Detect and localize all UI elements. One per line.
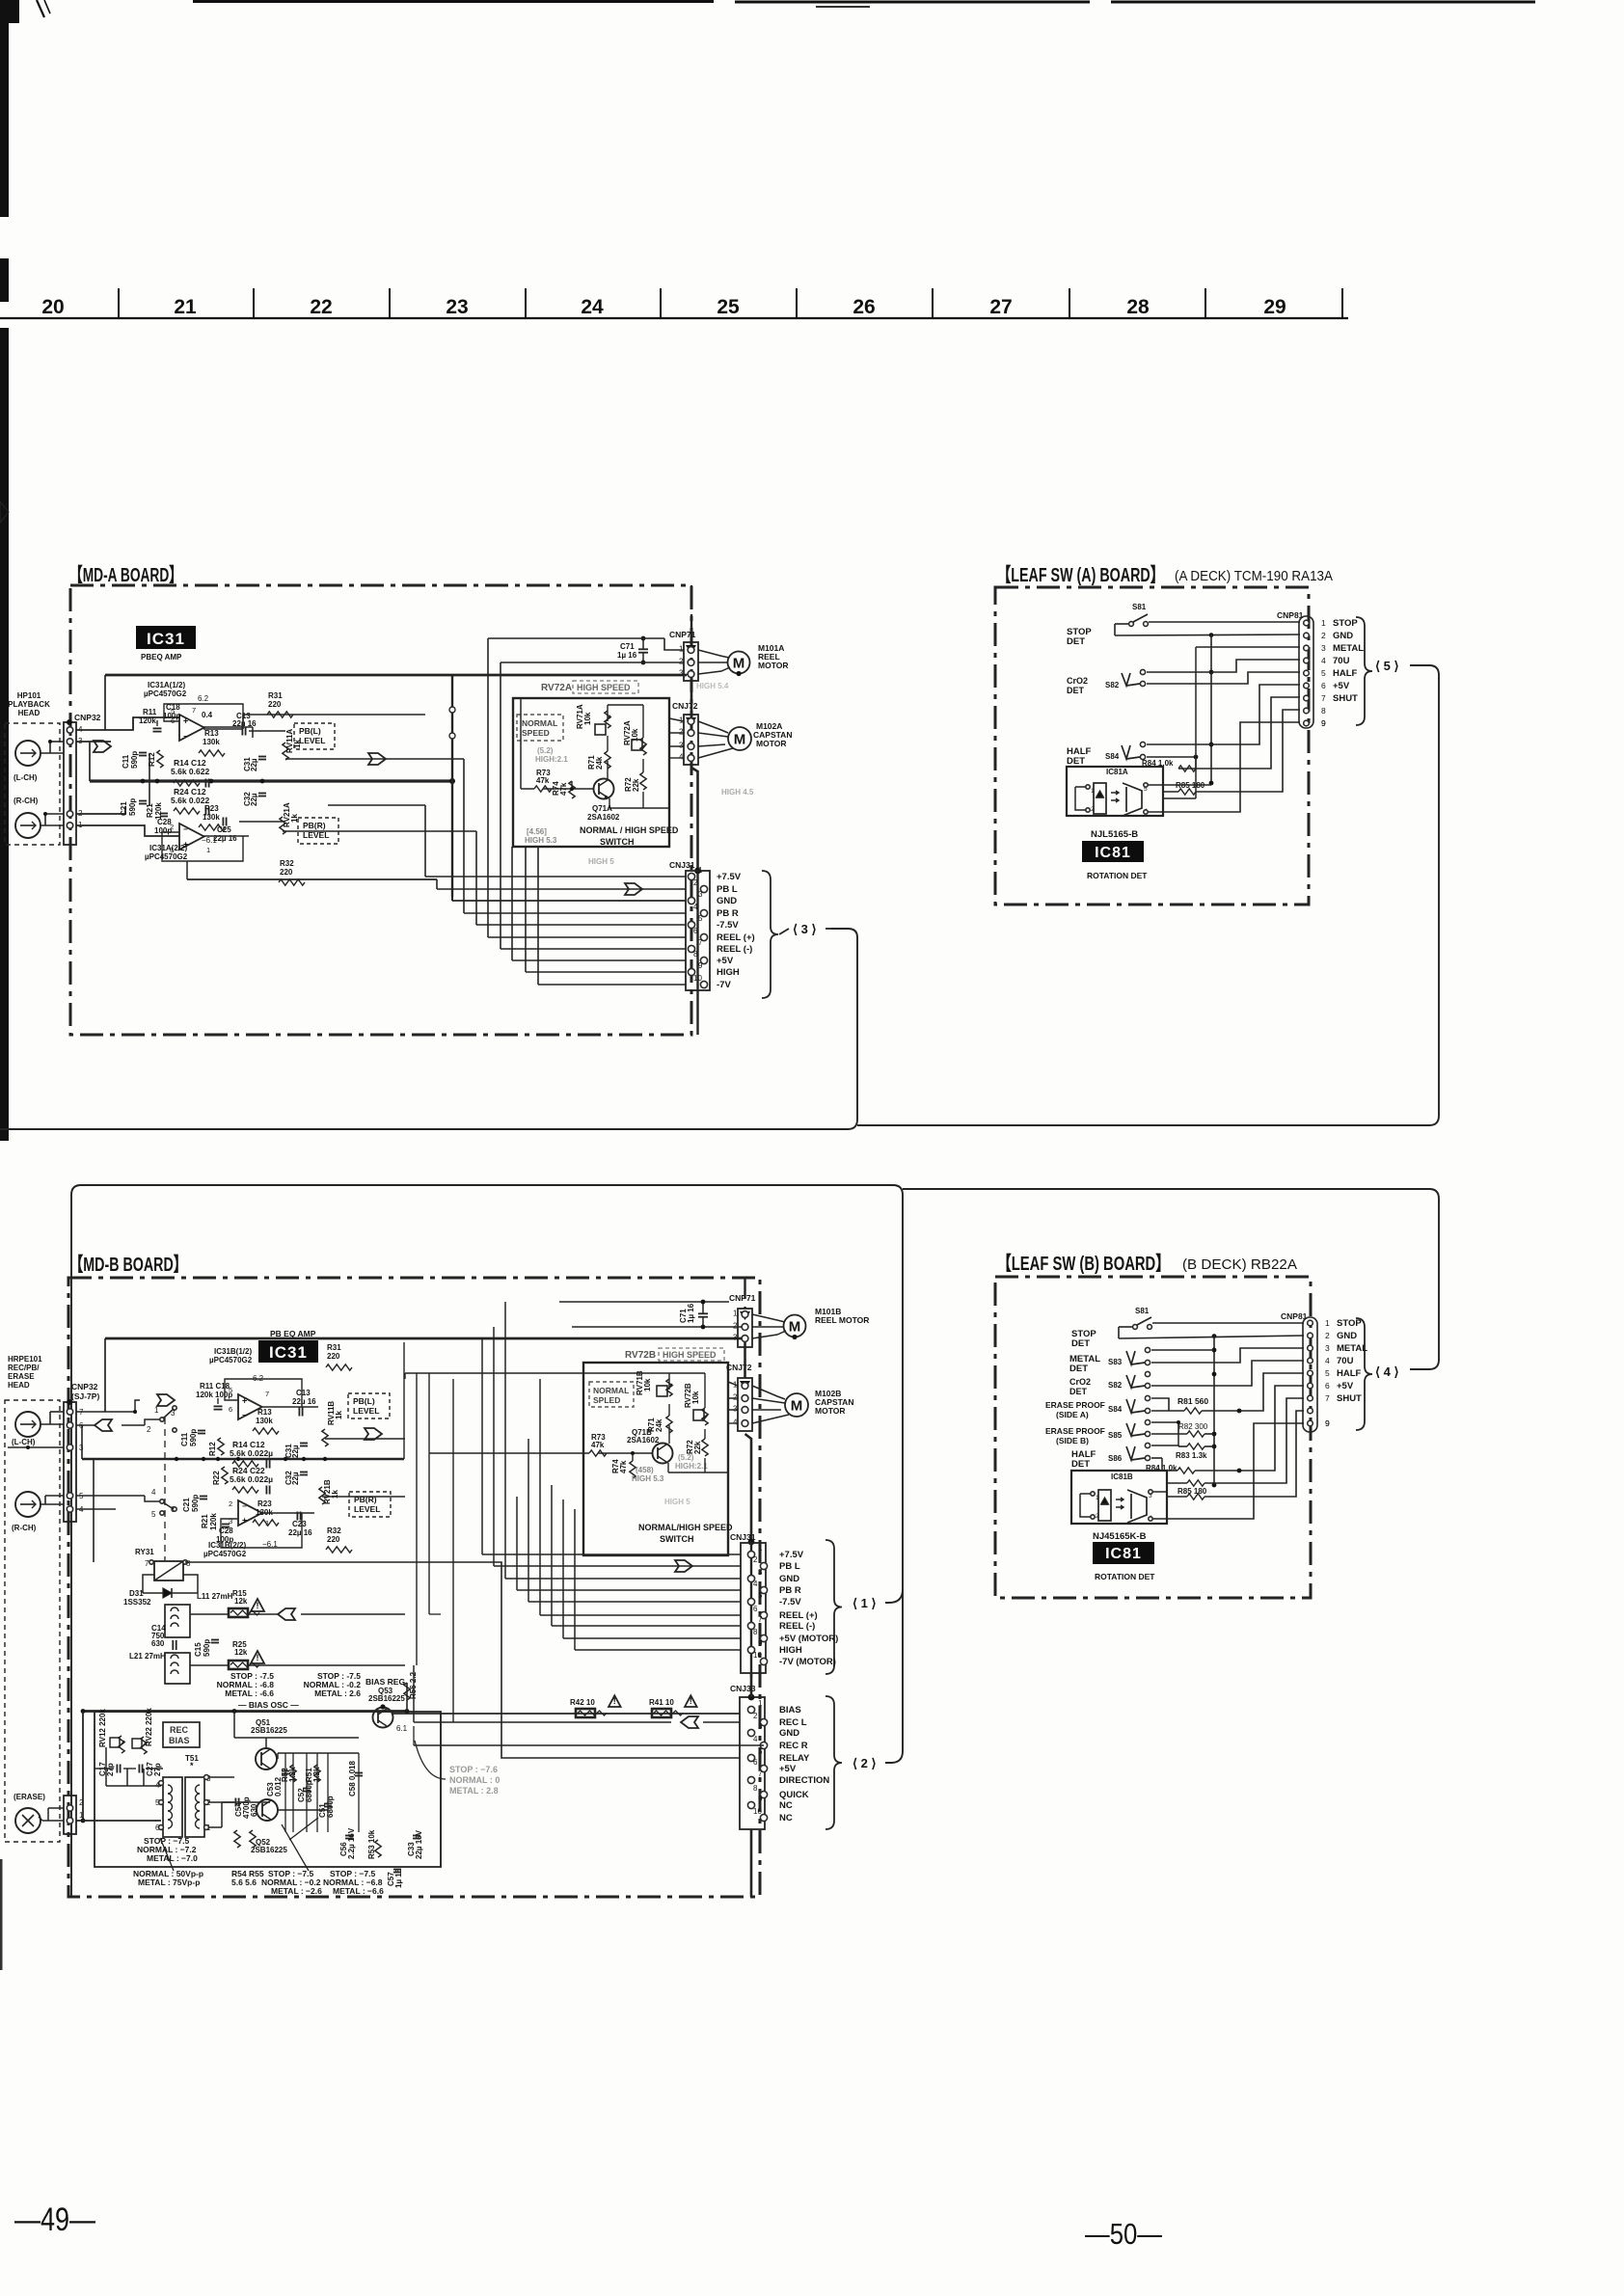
svg-text:MOTOR: MOTOR xyxy=(815,1406,845,1416)
op-amp IC31B(2/2) xyxy=(238,1500,262,1526)
svg-text:—50—: —50— xyxy=(1085,2217,1162,2251)
svg-text:⟨ 2 ⟩: ⟨ 2 ⟩ xyxy=(853,1756,877,1770)
svg-text:120k: 120k xyxy=(139,716,156,725)
svg-text:22: 22 xyxy=(310,296,332,318)
svg-text:IC81: IC81 xyxy=(1095,845,1131,861)
svg-text:29: 29 xyxy=(1263,296,1286,318)
svg-text:9: 9 xyxy=(758,1639,763,1648)
svg-text:HIGH: HIGH xyxy=(779,1645,802,1656)
svg-text:22µ 16V: 22µ 16V xyxy=(415,1829,423,1859)
svg-text:(L-CH): (L-CH) xyxy=(14,773,38,782)
svg-text:ROTATION DET: ROTATION DET xyxy=(1087,871,1148,880)
svg-text:-7V (MOTOR): -7V (MOTOR) xyxy=(779,1657,836,1667)
svg-text:(SIDE A): (SIDE A) xyxy=(1056,1410,1089,1419)
svg-text:S81: S81 xyxy=(1132,603,1147,611)
svg-text:PB EQ AMP: PB EQ AMP xyxy=(270,1329,316,1338)
stop det wires (A) xyxy=(1149,621,1300,623)
capstan motor M102A xyxy=(728,727,751,750)
svg-text:6: 6 xyxy=(753,1605,758,1613)
svg-text:21: 21 xyxy=(174,296,197,318)
wire Q53 to CNJ33 BIAS xyxy=(392,1713,740,1715)
reel motor M101B xyxy=(784,1315,806,1337)
svg-text:2: 2 xyxy=(1321,631,1326,640)
svg-text:3: 3 xyxy=(1325,1343,1330,1353)
svg-text:RV22 220k: RV22 220k xyxy=(145,1708,153,1746)
svg-text:DET: DET xyxy=(1069,1364,1088,1374)
svg-text:22µ: 22µ xyxy=(291,1445,300,1458)
svg-text:22µ 16: 22µ 16 xyxy=(288,1528,312,1537)
IC81A wires xyxy=(1075,786,1086,788)
svg-text:NORMAL/HIGH SPEED: NORMAL/HIGH SPEED xyxy=(638,1523,733,1532)
svg-text:DET: DET xyxy=(1067,636,1085,647)
svg-text:+5V (MOTOR): +5V (MOTOR) xyxy=(779,1634,838,1644)
signal chevron (MD-B mid) xyxy=(365,1428,382,1440)
svg-text:PB L: PB L xyxy=(779,1561,800,1572)
left chevron on REC L line xyxy=(681,1716,698,1728)
IC81B wires xyxy=(1080,1493,1091,1495)
svg-text:4: 4 xyxy=(1325,1356,1330,1365)
svg-text:HIGH 5: HIGH 5 xyxy=(664,1498,690,1506)
MD-B top bus wires xyxy=(105,1337,744,1340)
svg-text:HIGH 4.5: HIGH 4.5 xyxy=(721,788,754,797)
svg-text:22µ: 22µ xyxy=(250,758,258,771)
svg-text:5: 5 xyxy=(758,1747,763,1756)
wires head to CNP32 xyxy=(41,752,64,754)
svg-text:C13: C13 xyxy=(296,1389,311,1397)
svg-text:220: 220 xyxy=(327,1535,340,1544)
svg-text:CNJ72: CNJ72 xyxy=(726,1363,752,1372)
svg-text:LEVEL: LEVEL xyxy=(353,1406,379,1416)
svg-text:+: + xyxy=(242,1516,247,1526)
svg-text:DET: DET xyxy=(1067,686,1085,695)
svg-text:HIGH SPEED: HIGH SPEED xyxy=(663,1350,717,1360)
svg-text:10: 10 xyxy=(693,974,702,983)
IC31 label block (MD-A) xyxy=(136,626,196,649)
svg-text:R32: R32 xyxy=(327,1526,341,1535)
svg-text:ROTATION DET: ROTATION DET xyxy=(1095,1572,1155,1581)
signal arrow from CNP32 pin3 xyxy=(94,741,111,752)
svg-text:METAL : 75Vp-p: METAL : 75Vp-p xyxy=(138,1877,200,1887)
svg-text:8: 8 xyxy=(693,950,698,959)
svg-text:2SB16225: 2SB16225 xyxy=(251,1726,287,1735)
svg-text:590p: 590p xyxy=(130,751,139,769)
svg-text:+: + xyxy=(183,716,188,726)
svg-text:2: 2 xyxy=(679,658,684,666)
wire branch to brace 1 xyxy=(885,1589,903,1603)
svg-text:+7.5V: +7.5V xyxy=(717,872,742,882)
svg-text:2: 2 xyxy=(753,1555,758,1564)
svg-text:4: 4 xyxy=(733,1418,738,1427)
svg-text:130k: 130k xyxy=(203,738,220,746)
wires opamp area (MD-A) xyxy=(132,717,134,730)
erase head circle with X xyxy=(15,1808,41,1833)
switch block internal wires (B) xyxy=(583,1452,589,1454)
svg-text:5: 5 xyxy=(1325,1368,1330,1378)
svg-text:−: − xyxy=(183,732,188,741)
svg-text:IC81A: IC81A xyxy=(1106,768,1128,776)
svg-text:120k: 120k xyxy=(209,1513,218,1530)
svg-text:NJ45165K-B: NJ45165K-B xyxy=(1093,1531,1147,1542)
svg-text:-7.5V: -7.5V xyxy=(717,920,739,931)
optocoupler IC81A box xyxy=(1067,767,1163,816)
svg-text:2: 2 xyxy=(1325,1331,1330,1340)
svg-text:5: 5 xyxy=(758,1591,763,1600)
svg-text:µPC4570G2: µPC4570G2 xyxy=(203,1550,247,1558)
svg-text:4: 4 xyxy=(679,753,684,762)
svg-text:8: 8 xyxy=(1321,706,1326,716)
wires switch box to CNJ72 (B) xyxy=(728,1382,738,1386)
svg-text:22µ 16: 22µ 16 xyxy=(292,1397,316,1406)
svg-text:REEL (+): REEL (+) xyxy=(717,932,755,943)
svg-text:−: − xyxy=(242,1411,247,1419)
svg-text:LEVEL: LEVEL xyxy=(354,1504,380,1514)
svg-text:RELAY: RELAY xyxy=(779,1753,810,1764)
switch block box (MD-B) xyxy=(583,1363,728,1555)
svg-text:7: 7 xyxy=(698,938,703,947)
svg-text:1µ 16: 1µ 16 xyxy=(617,651,637,660)
svg-text:1k: 1k xyxy=(335,1411,343,1419)
callout arrows xyxy=(160,1838,174,1871)
svg-text:NORMAL : 0: NORMAL : 0 xyxy=(449,1775,500,1785)
svg-text:C21: C21 xyxy=(182,1498,191,1512)
svg-text:12k: 12k xyxy=(234,1648,248,1657)
svg-text:HIGH:2.1: HIGH:2.1 xyxy=(675,1462,708,1471)
svg-text:GND: GND xyxy=(717,896,737,906)
svg-text:C15: C15 xyxy=(194,1642,203,1657)
svg-text:6: 6 xyxy=(693,927,698,935)
vertical bus (B) xyxy=(1213,1336,1215,1485)
chevron on PB L line xyxy=(625,883,642,895)
svg-text:2: 2 xyxy=(1091,806,1095,813)
wires switch box to CNJ72 xyxy=(669,718,684,721)
transistor Q71A xyxy=(594,779,614,799)
svg-text:IC31B(1/2): IC31B(1/2) xyxy=(214,1347,252,1356)
svg-text:−: − xyxy=(242,1502,247,1511)
svg-text:BIAS: BIAS xyxy=(169,1736,190,1745)
svg-text:DIRECTION: DIRECTION xyxy=(779,1775,829,1786)
svg-text:µPC4570G2: µPC4570G2 xyxy=(209,1356,253,1364)
svg-text:R83 1.3k: R83 1.3k xyxy=(1176,1451,1207,1460)
svg-text:1: 1 xyxy=(1325,1318,1330,1328)
svg-text:3: 3 xyxy=(679,742,684,750)
brace and node 5 for CNP81-A xyxy=(1356,617,1372,725)
svg-text:2: 2 xyxy=(229,1499,232,1508)
svg-text:【LEAF SW (A) BOARD】: 【LEAF SW (A) BOARD】 xyxy=(997,564,1164,586)
svg-text:7: 7 xyxy=(265,1390,269,1398)
svg-text:NC: NC xyxy=(779,1800,793,1811)
svg-text:5: 5 xyxy=(1321,668,1326,678)
svg-text:GND: GND xyxy=(1333,631,1353,641)
svg-text:【LEAF SW (B) BOARD】: 【LEAF SW (B) BOARD】 xyxy=(997,1253,1170,1275)
svg-text:130k: 130k xyxy=(256,1417,273,1425)
svg-text:R22: R22 xyxy=(212,1471,221,1485)
svg-text:IC31A(2/2): IC31A(2/2) xyxy=(149,844,187,852)
heavy mid bus (MD-A) xyxy=(90,779,452,782)
svg-text:IC31A(1/2): IC31A(1/2) xyxy=(148,681,185,689)
svg-text:HP101: HP101 xyxy=(17,691,41,700)
svg-text:R11 C18: R11 C18 xyxy=(200,1382,230,1391)
svg-text:HIGH: HIGH xyxy=(717,967,740,978)
MD-A board outline xyxy=(70,585,691,1035)
MD-A right border dash continuation xyxy=(690,585,692,642)
svg-text:*: * xyxy=(190,1761,194,1770)
svg-text:REC R: REC R xyxy=(779,1741,808,1751)
svg-text:REC: REC xyxy=(170,1725,189,1735)
svg-text:8: 8 xyxy=(753,1784,758,1793)
svg-text:9: 9 xyxy=(698,961,703,970)
svg-text:STOP: STOP xyxy=(1333,618,1358,629)
svg-text:+5V: +5V xyxy=(779,1764,797,1774)
transistor Q53 xyxy=(373,1708,393,1728)
svg-text:METAL: METAL xyxy=(1337,1343,1367,1354)
svg-text:(ERASE): (ERASE) xyxy=(14,1793,45,1801)
PB(L) LEVEL box xyxy=(294,723,335,749)
svg-text:IC31: IC31 xyxy=(147,630,185,648)
svg-text:PB(L): PB(L) xyxy=(353,1396,375,1406)
svg-text:3: 3 xyxy=(758,1722,763,1731)
svg-text:100p: 100p xyxy=(154,826,172,835)
svg-text:MOTOR: MOTOR xyxy=(758,661,788,670)
svg-text:120k 100p: 120k 100p xyxy=(196,1391,232,1399)
svg-text:(SIDE B): (SIDE B) xyxy=(1056,1436,1089,1445)
brace and node 3 for CNJ31-A xyxy=(762,871,778,998)
svg-text:1µ 16: 1µ 16 xyxy=(687,1303,695,1323)
svg-text:4: 4 xyxy=(151,1488,156,1497)
svg-text:+7.5V: +7.5V xyxy=(779,1550,804,1560)
svg-text:6.2: 6.2 xyxy=(198,694,209,703)
input select switch contacts (MD-B upper) xyxy=(157,1394,175,1406)
svg-text:+: + xyxy=(242,1396,247,1406)
svg-text:⟨ 4 ⟩: ⟨ 4 ⟩ xyxy=(1375,1364,1399,1379)
svg-text:RV12 220k: RV12 220k xyxy=(98,1709,107,1747)
svg-text:S83: S83 xyxy=(1108,1358,1123,1366)
svg-text:METAL : -6.6: METAL : -6.6 xyxy=(225,1688,274,1698)
svg-text:−: − xyxy=(183,825,188,834)
MD-B board outline xyxy=(68,1278,760,1897)
svg-text:7: 7 xyxy=(1325,1393,1330,1403)
svg-text:R23: R23 xyxy=(257,1499,272,1508)
svg-text:RV72B: RV72B xyxy=(625,1350,656,1361)
svg-text:27p: 27p xyxy=(153,1763,162,1776)
svg-text:22µ: 22µ xyxy=(291,1472,300,1485)
svg-text:RY31: RY31 xyxy=(135,1548,154,1556)
svg-text:⟨ 1 ⟩: ⟨ 1 ⟩ xyxy=(853,1596,877,1610)
reel motor M101A xyxy=(728,652,750,674)
svg-text:CrO2: CrO2 xyxy=(1069,1377,1091,1387)
svg-text:C21: C21 xyxy=(120,801,128,816)
svg-text:2: 2 xyxy=(1096,1513,1099,1520)
svg-text:C11: C11 xyxy=(122,754,130,769)
svg-text:PB(L): PB(L) xyxy=(299,726,321,736)
svg-text:PB L: PB L xyxy=(717,884,738,895)
svg-text:C58 0.018: C58 0.018 xyxy=(348,1761,357,1796)
svg-text:HEAD: HEAD xyxy=(18,709,41,717)
svg-text:6: 6 xyxy=(753,1758,758,1767)
bias oscillator inner box xyxy=(95,1712,441,1867)
svg-text:4: 4 xyxy=(753,1735,758,1743)
svg-text:S82: S82 xyxy=(1105,681,1120,689)
svg-text:NORMAL: NORMAL xyxy=(522,718,557,728)
svg-text:-7.5V: -7.5V xyxy=(779,1597,801,1607)
svg-text:SHUT: SHUT xyxy=(1337,1393,1362,1404)
svg-text:!: ! xyxy=(613,1696,616,1706)
svg-text:SPLED: SPLED xyxy=(593,1395,620,1405)
svg-text:!: ! xyxy=(257,1601,259,1610)
main supply bus (MD-B bias) xyxy=(83,1710,407,1713)
svg-text:22k: 22k xyxy=(632,778,640,792)
transistor Q52 xyxy=(257,1799,278,1821)
svg-text:PLAYBACK: PLAYBACK xyxy=(8,700,50,709)
NORMAL SPEED box (MD-A) xyxy=(517,715,563,741)
brace and node 1 for CNJ31-B xyxy=(826,1540,842,1674)
svg-text:2: 2 xyxy=(693,878,698,887)
svg-text:HIGH SPEED: HIGH SPEED xyxy=(577,683,631,692)
svg-text:STOP : −7.6: STOP : −7.6 xyxy=(449,1765,498,1774)
svg-text:590p: 590p xyxy=(128,798,137,816)
NORMAL SPEED box (MD-B) xyxy=(589,1382,634,1407)
svg-text:L11 27mH: L11 27mH xyxy=(197,1592,233,1601)
svg-text:REEL (+): REEL (+) xyxy=(779,1610,818,1621)
svg-text:R12: R12 xyxy=(208,1442,217,1456)
svg-text:REC L: REC L xyxy=(779,1717,807,1728)
svg-text:3: 3 xyxy=(698,890,703,899)
svg-text:26: 26 xyxy=(853,296,875,318)
svg-text:(SJ-7P): (SJ-7P) xyxy=(71,1391,99,1401)
svg-text:5.6k 0.022µ: 5.6k 0.022µ xyxy=(230,1448,273,1458)
svg-text:GND: GND xyxy=(1337,1331,1357,1341)
svg-text:NC: NC xyxy=(779,1813,793,1823)
svg-text:R85 180: R85 180 xyxy=(1177,1487,1207,1496)
svg-text:S82: S82 xyxy=(1108,1381,1123,1390)
svg-text:R11: R11 xyxy=(143,708,157,716)
svg-text:L21 27mH: L21 27mH xyxy=(129,1652,166,1661)
svg-text:590p: 590p xyxy=(191,1495,200,1512)
svg-text:10: 10 xyxy=(753,1651,762,1660)
IC81B LED side xyxy=(1098,1490,1111,1521)
svg-text:4: 4 xyxy=(693,903,698,911)
svg-text:2SA1602: 2SA1602 xyxy=(587,813,620,822)
svg-text:!: ! xyxy=(257,1653,259,1662)
svg-text:4: 4 xyxy=(1321,656,1326,665)
chevron on PB L line (B) xyxy=(675,1560,692,1572)
svg-text:47k: 47k xyxy=(536,776,550,785)
IC81A LED side xyxy=(1094,783,1106,814)
brace and node 4 for CNP81-B xyxy=(1356,1318,1372,1430)
svg-text:R81 560: R81 560 xyxy=(1177,1396,1208,1406)
svg-text:REEL (-): REEL (-) xyxy=(717,944,752,955)
svg-text:D31: D31 xyxy=(129,1589,144,1598)
feedback wires (MD-A) xyxy=(164,704,243,727)
svg-text:6: 6 xyxy=(1325,1381,1330,1391)
svg-text:3: 3 xyxy=(733,1334,738,1342)
capstan motor M102B xyxy=(785,1393,808,1417)
svg-text:7: 7 xyxy=(758,1615,763,1624)
svg-text:3: 3 xyxy=(758,1568,763,1577)
signal arrow mid (MD-A) xyxy=(368,753,386,765)
svg-text:5.6k 0.022µ: 5.6k 0.022µ xyxy=(230,1474,273,1484)
svg-text:METAL: METAL xyxy=(1333,643,1364,654)
svg-text:RV72A: RV72A xyxy=(541,683,572,693)
svg-text:REEL MOTOR: REEL MOTOR xyxy=(815,1315,869,1325)
ground bus (MD-B) xyxy=(82,1458,404,1461)
svg-text:630: 630 xyxy=(151,1639,165,1648)
svg-text:CNP81: CNP81 xyxy=(1277,610,1304,620)
svg-text:CrO2: CrO2 xyxy=(1067,676,1088,686)
wires CNP32 to switches (MD-B) xyxy=(76,1411,135,1413)
svg-text:(A DECK) TCM-190 RA13A: (A DECK) TCM-190 RA13A xyxy=(1175,568,1333,584)
svg-text:µPC4570G2: µPC4570G2 xyxy=(144,689,187,698)
svg-text:130k: 130k xyxy=(203,813,220,822)
svg-text:S85: S85 xyxy=(1108,1431,1123,1440)
svg-text:[4.56]: [4.56] xyxy=(527,827,547,836)
wires head to CNP32 (MD-B) xyxy=(41,1423,64,1425)
svg-text:CNP71: CNP71 xyxy=(729,1293,756,1303)
svg-text:C71: C71 xyxy=(620,642,635,651)
svg-text:10k: 10k xyxy=(643,1378,652,1391)
wire staircase into CNJ31-B xyxy=(481,1338,483,1554)
svg-text:PB R: PB R xyxy=(717,908,739,919)
svg-text:25: 25 xyxy=(717,296,740,318)
svg-text:20: 20 xyxy=(41,296,64,318)
svg-text:R13: R13 xyxy=(204,729,219,738)
svg-text:REC/PB/: REC/PB/ xyxy=(8,1364,40,1372)
svg-text:2: 2 xyxy=(679,728,684,737)
LEAF SW (B) board outline xyxy=(995,1277,1311,1598)
svg-text:⟨ 5 ⟩: ⟨ 5 ⟩ xyxy=(1375,659,1399,673)
svg-text:5.6k 0.622: 5.6k 0.622 xyxy=(171,767,209,776)
svg-text:R13: R13 xyxy=(257,1408,272,1417)
svg-text:2SA1602: 2SA1602 xyxy=(627,1436,660,1445)
svg-text:METAL : −7.0: METAL : −7.0 xyxy=(147,1853,198,1863)
svg-text:7: 7 xyxy=(1321,693,1326,703)
svg-text:BIAS REG: BIAS REG xyxy=(365,1677,405,1687)
svg-text:1: 1 xyxy=(698,866,703,875)
IC81A photo transistor xyxy=(1123,783,1142,816)
svg-text:S84: S84 xyxy=(1105,752,1120,761)
svg-text:1µ 16: 1µ 16 xyxy=(394,1868,403,1888)
wire junction A to circled 5 riser xyxy=(857,665,1439,1125)
svg-text:2: 2 xyxy=(733,1393,738,1402)
svg-text:1: 1 xyxy=(1091,788,1095,795)
svg-text:µPC4570G2: µPC4570G2 xyxy=(145,852,188,861)
svg-text:M: M xyxy=(791,1398,803,1415)
svg-text:2SB16225: 2SB16225 xyxy=(251,1846,287,1854)
svg-text:C25: C25 xyxy=(217,825,231,834)
svg-text:GND: GND xyxy=(779,1728,799,1739)
REC BIAS box xyxy=(163,1722,200,1747)
left arrow into pin 6 xyxy=(95,1419,112,1431)
svg-text:24k: 24k xyxy=(655,1418,663,1432)
svg-text:(B DECK) RB22A: (B DECK) RB22A xyxy=(1182,1256,1297,1273)
svg-text:S86: S86 xyxy=(1108,1454,1123,1463)
svg-text:3: 3 xyxy=(733,1405,738,1414)
svg-text:27p: 27p xyxy=(106,1763,115,1776)
svg-text:1: 1 xyxy=(1096,1495,1099,1501)
svg-text:+5V: +5V xyxy=(1337,1381,1354,1391)
svg-text:1: 1 xyxy=(154,1406,159,1415)
svg-text:22µ: 22µ xyxy=(250,793,258,806)
svg-text:27: 27 xyxy=(989,296,1012,318)
svg-text:23: 23 xyxy=(446,296,468,318)
svg-text:HIGH 5.3: HIGH 5.3 xyxy=(525,836,557,845)
wire off-page to junction B and down to braces 1,2 xyxy=(71,1185,903,1896)
svg-text:24k: 24k xyxy=(595,756,604,770)
svg-text:HIGH 5.3: HIGH 5.3 xyxy=(632,1474,664,1483)
svg-text:R32: R32 xyxy=(280,859,294,868)
bias osc vertical wires xyxy=(284,1753,286,1832)
svg-text:1SS352: 1SS352 xyxy=(123,1598,151,1607)
long wire top bus (MD-A) xyxy=(105,674,687,677)
